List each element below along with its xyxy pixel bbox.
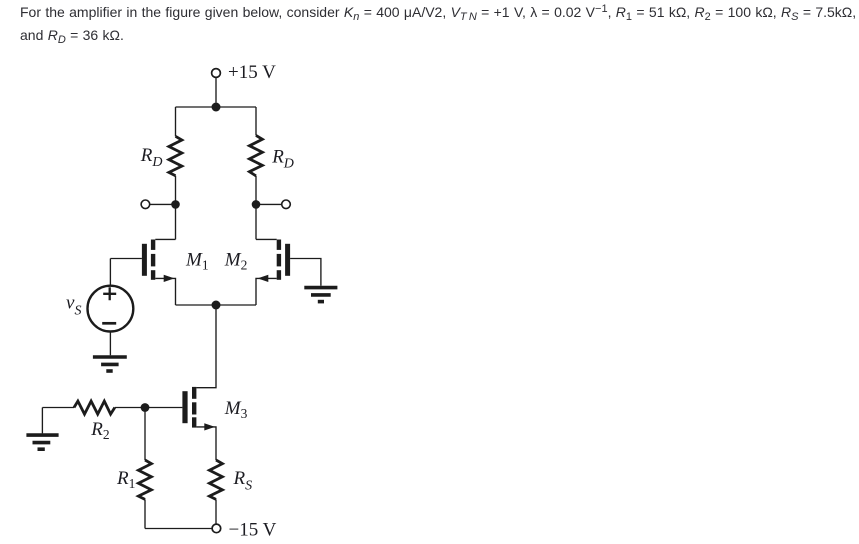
svg-text:R1: R1	[116, 468, 135, 491]
svg-text:RD: RD	[271, 147, 294, 172]
ground (M2 gate)	[304, 288, 337, 302]
wire to left output terminal	[150, 203, 172, 205]
wire: left ground to R2	[42, 407, 74, 409]
resistor R2	[74, 401, 115, 414]
wire: M1 gate	[110, 258, 141, 260]
resistor RD (left)	[169, 136, 182, 175]
node: top bus junction	[212, 103, 221, 112]
plus sign	[103, 287, 116, 300]
svg-text:RD: RD	[140, 145, 163, 170]
transistor M1	[142, 239, 176, 305]
svg-text:M1: M1	[185, 249, 209, 272]
source vS	[88, 286, 134, 332]
svg-text:RS: RS	[233, 468, 253, 494]
minus sign	[102, 322, 116, 325]
ground (left, R2)	[26, 435, 58, 449]
wire: RS bottom to -15V terminal	[215, 499, 217, 524]
wire from +15V terminal to top bus	[215, 77, 217, 102]
transistor M3	[182, 387, 216, 460]
wire: RD right bottom to drain node	[255, 176, 257, 240]
wire: vS bottom to ground	[109, 332, 111, 356]
right output terminal	[282, 200, 291, 209]
wire: R2 to M3 gate	[115, 407, 183, 409]
transistor M2	[256, 239, 290, 305]
svg-text:R2: R2	[90, 419, 109, 442]
wire: right branch to RD	[255, 107, 257, 135]
svg-text:M3: M3	[224, 398, 248, 421]
wire: left ground stem	[41, 408, 43, 434]
node: left output junction	[171, 200, 180, 209]
node: R1/R2/M3-gate junction	[141, 403, 150, 412]
svg-text:vS: vS	[66, 293, 81, 319]
wire: common source rail	[176, 304, 257, 306]
svg-text:+15 V: +15 V	[228, 62, 276, 83]
svg-text:−15 V: −15 V	[229, 519, 277, 540]
wire: RD left bottom to drain node	[175, 176, 177, 240]
left output terminal	[141, 200, 150, 209]
wire: top bus	[176, 106, 257, 108]
wire: vS top to M1 gate	[109, 259, 111, 286]
node: common source junction	[212, 301, 221, 310]
wire: junction down to R1	[144, 408, 146, 461]
svg-text:M2: M2	[224, 249, 248, 272]
node: right output junction	[252, 200, 261, 209]
wire to right output terminal	[260, 203, 282, 205]
wire: bottom rail	[145, 528, 212, 530]
wire: left branch to RD	[175, 107, 177, 136]
resistor RS	[209, 460, 222, 499]
ground (vS)	[93, 357, 127, 371]
wire: M2 gate to ground	[290, 259, 321, 286]
resistor RD (right)	[249, 135, 262, 176]
wire: R1 bottom to rail	[144, 499, 146, 528]
-15 V supply terminal	[212, 524, 221, 533]
wire: common source down to M3 drain	[196, 305, 216, 388]
+15 V supply terminal	[212, 69, 221, 78]
resistor R1	[138, 460, 151, 499]
